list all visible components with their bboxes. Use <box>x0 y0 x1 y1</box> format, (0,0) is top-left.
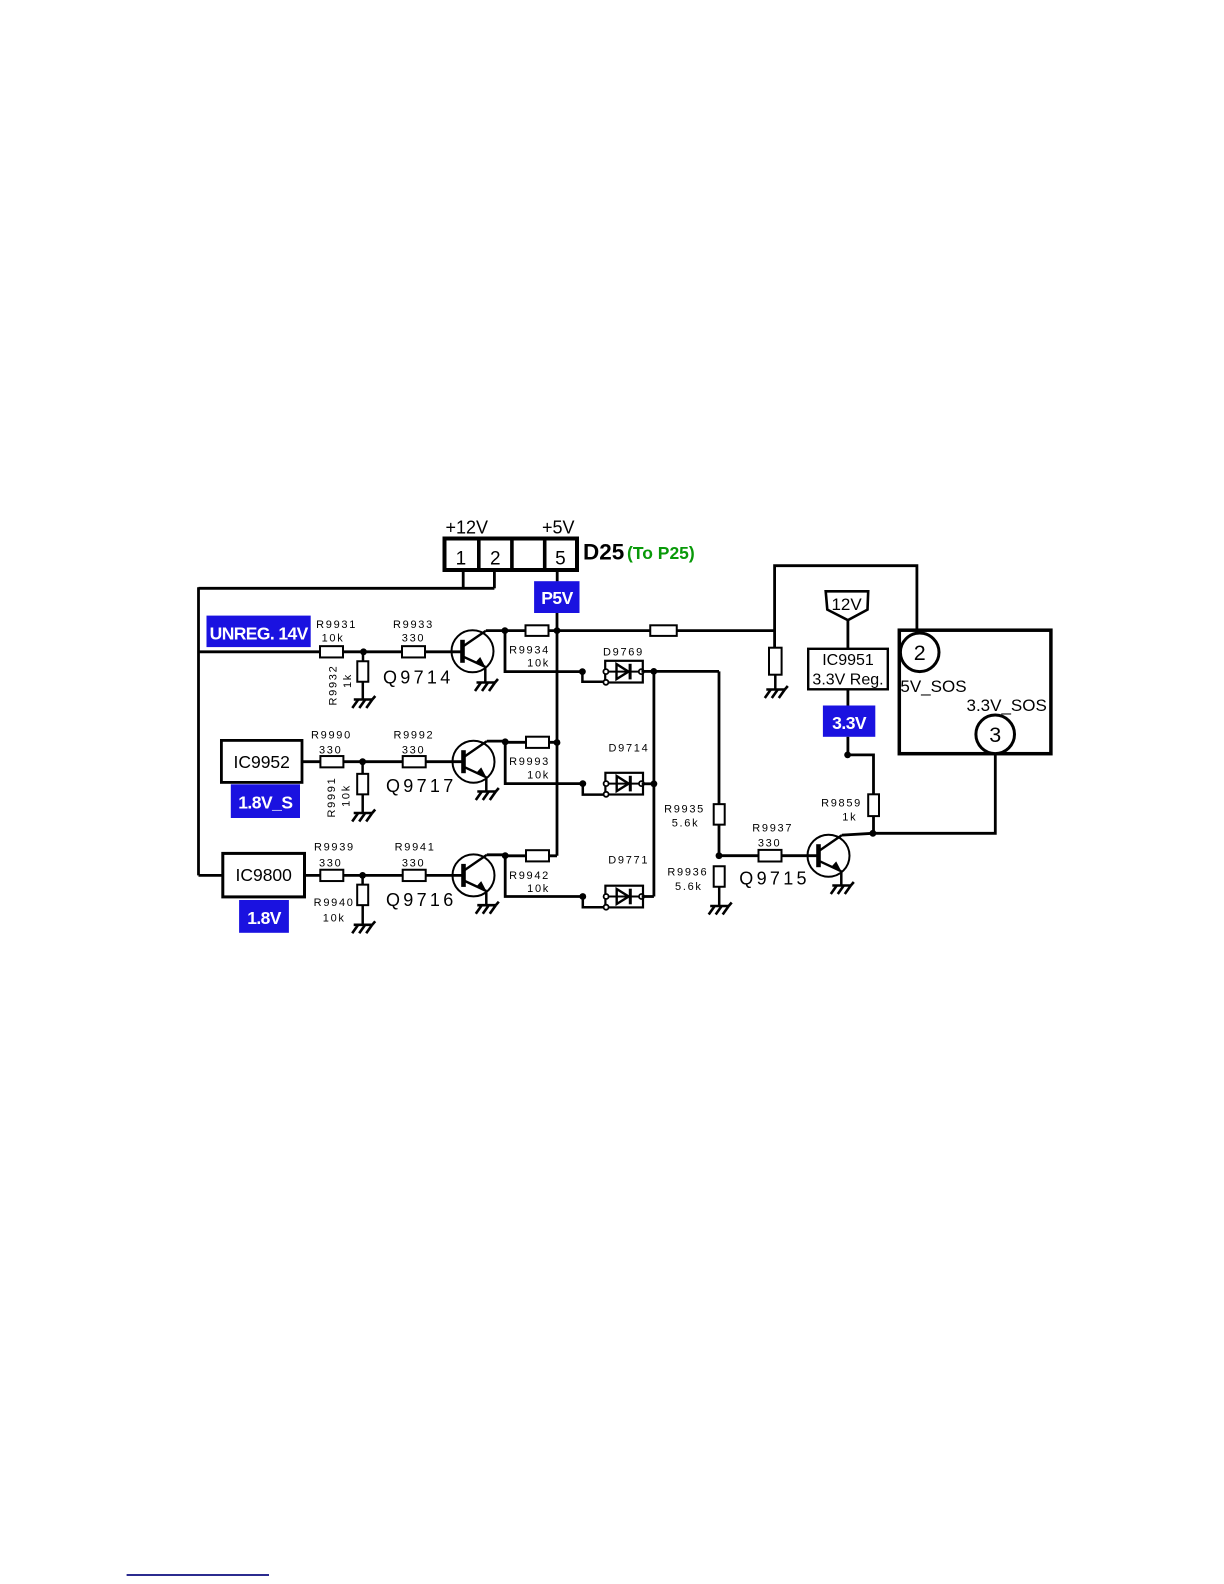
ground Q9717 emitter <box>476 777 499 800</box>
svg-text:2: 2 <box>490 549 501 570</box>
wire left bus to IC9800 <box>199 874 225 877</box>
node UNREG. 14V <box>207 616 311 648</box>
node collector junction Q9714 <box>502 627 509 634</box>
svg-text:P5V: P5V <box>541 588 573 608</box>
wire junction down to R9991 <box>361 762 364 774</box>
node R9859 Q9715 collector junction <box>870 830 877 837</box>
svg-text:IC9951: IC9951 <box>822 652 874 669</box>
wire D9771 cathode to bus <box>642 895 654 898</box>
resistor R9992 <box>393 729 434 767</box>
ground Q9715 emitter <box>831 871 854 894</box>
resistor R9933 <box>393 619 434 657</box>
wire 12V flag to IC9951 <box>847 620 850 649</box>
footer underline <box>127 1574 269 1576</box>
supply flag 12V <box>826 591 869 620</box>
wire UNREG 14V to R9931 <box>199 650 321 653</box>
wire D9769 anode loop <box>582 672 605 682</box>
ground below R9991 <box>352 794 375 821</box>
wire junction to R9937 <box>719 854 759 857</box>
wire left bus vertical <box>197 587 200 875</box>
svg-text:330: 330 <box>402 858 425 870</box>
node 1.8V_S <box>231 784 300 818</box>
wire P5V vertical <box>556 613 559 856</box>
node collector junction Q9717 <box>502 738 509 745</box>
ground Q9714 emitter <box>475 667 498 692</box>
svg-text:3: 3 <box>989 723 1001 747</box>
svg-text:D9771: D9771 <box>608 855 649 867</box>
wire resistor 775 top <box>773 631 776 648</box>
pin circle 2 <box>900 633 939 672</box>
svg-text:R9934: R9934 <box>509 645 550 657</box>
ground below R9936 <box>709 887 732 915</box>
svg-text:3.3V_SOS: 3.3V_SOS <box>967 696 1047 715</box>
resistor R9935 <box>664 804 725 830</box>
svg-text:R9942: R9942 <box>509 870 550 882</box>
svg-text:3.3V: 3.3V <box>832 713 867 733</box>
wire R9939 to junction <box>343 874 403 877</box>
wire junction down to R9932 <box>362 652 365 661</box>
wire Q9717 collector drop to D9714 <box>505 742 583 784</box>
svg-text:1: 1 <box>456 549 467 570</box>
svg-text:R9990: R9990 <box>311 729 352 741</box>
svg-text:12V: 12V <box>831 595 862 614</box>
transistor Q9717 <box>386 741 495 796</box>
svg-text:(To P25): (To P25) <box>627 543 695 563</box>
wire 3.3V down to junction <box>847 737 850 755</box>
svg-text:5V_SOS: 5V_SOS <box>900 677 966 696</box>
svg-text:5.6k: 5.6k <box>675 881 703 893</box>
resistor R9942 <box>509 850 550 895</box>
node collector junction Q9716 <box>502 852 509 859</box>
wire R9992 to Q9717 base <box>426 760 464 763</box>
connector D25 labels +12V +5V <box>446 518 575 538</box>
svg-text:330: 330 <box>319 858 342 870</box>
svg-text:2: 2 <box>914 641 926 665</box>
svg-text:+12V: +12V <box>446 518 489 538</box>
wire Q9715 collector to R9859 node <box>842 833 873 835</box>
wire D9769 cathode to node <box>642 670 654 673</box>
node diode bus mid <box>651 780 658 787</box>
svg-text:R9941: R9941 <box>395 842 436 854</box>
svg-text:R9932: R9932 <box>328 665 340 706</box>
wire R9937 to Q9715 base <box>781 854 818 857</box>
wire pin1 stub <box>462 570 465 588</box>
wire branch down to R9935 <box>718 671 721 804</box>
resistor R9934 <box>509 625 550 669</box>
wire R9935 to junction <box>718 825 721 856</box>
block IC9951 3.3V Reg. <box>808 649 888 690</box>
resistor R9941 <box>395 842 436 882</box>
wire IC9800 to R9939 <box>303 874 320 877</box>
node rail2 P5V junction <box>554 739 561 746</box>
wire D9771 anode loop <box>583 897 605 908</box>
svg-text:330: 330 <box>758 838 781 850</box>
node base junction Q9716 <box>359 872 366 879</box>
diode D9769 <box>603 647 644 685</box>
transistor Q9716 <box>386 854 495 909</box>
svg-text:10k: 10k <box>527 769 550 781</box>
wire rail2 <box>505 741 557 744</box>
svg-text:R9936: R9936 <box>667 867 708 879</box>
wire R9941 to Q9716 base <box>426 874 464 877</box>
transistor Q9714 <box>383 630 494 687</box>
wire D9714 anode loop <box>583 784 605 795</box>
node base junction Q9717 <box>359 758 366 765</box>
svg-text:5.6k: 5.6k <box>672 818 700 830</box>
svg-text:10k: 10k <box>341 784 353 807</box>
transistor Q9715 <box>739 835 849 889</box>
wire R9933 to Q9714 base <box>425 650 463 653</box>
svg-text:R9992: R9992 <box>393 729 434 741</box>
wire Q9716 collector to rail <box>487 853 505 856</box>
wire IC9952 to R9990 <box>301 760 320 763</box>
svg-text:IC9952: IC9952 <box>233 752 289 772</box>
svg-text:330: 330 <box>319 744 342 756</box>
svg-text:R9859: R9859 <box>821 798 862 810</box>
wire pins 1-2 to left bus <box>199 587 495 590</box>
svg-text:R9939: R9939 <box>314 842 355 854</box>
svg-text:R9931: R9931 <box>316 619 357 631</box>
wire collector node to SOS pin 3 <box>873 753 995 833</box>
resistor R9859 <box>821 794 879 823</box>
svg-text:R9935: R9935 <box>664 804 705 816</box>
node 3.3V <box>823 706 875 737</box>
svg-text:330: 330 <box>402 744 425 756</box>
wire pin2 stub <box>493 570 496 588</box>
wire rail3 <box>505 854 557 857</box>
svg-text:Q9715: Q9715 <box>739 869 810 889</box>
svg-text:10k: 10k <box>527 883 550 895</box>
resistor pull-down at 775 <box>769 648 782 675</box>
svg-text:5: 5 <box>555 549 566 570</box>
svg-text:10k: 10k <box>527 658 550 670</box>
node D9771 anode junction <box>579 893 586 900</box>
svg-text:D9714: D9714 <box>609 743 650 755</box>
svg-text:Q9717: Q9717 <box>386 776 457 796</box>
node R9935 R9936 junction <box>716 852 723 859</box>
resistor R9940 <box>314 885 369 925</box>
wire R9859 to collector node <box>872 816 875 833</box>
wire Q9716 collector drop to D9771 <box>505 856 583 897</box>
wire R9931 to junction <box>343 650 402 653</box>
node rail1 P5V junction <box>554 627 561 634</box>
node P5V <box>534 581 579 613</box>
connector D25 body <box>445 539 578 571</box>
node D9769 anode junction <box>579 668 586 675</box>
ground below R9932 <box>352 682 375 708</box>
svg-text:Q9714: Q9714 <box>383 668 454 688</box>
ground Q9716 emitter <box>476 891 499 914</box>
svg-text:IC9800: IC9800 <box>235 865 292 885</box>
resistor R9937 <box>752 823 793 862</box>
wire top loop to SOS box <box>775 566 917 634</box>
ground below R9940 <box>352 905 375 934</box>
resistor R9936 <box>667 866 724 893</box>
node diode bus top <box>650 668 657 675</box>
diode D9714 <box>604 743 650 797</box>
node base junction Q9714 <box>360 648 367 655</box>
resistor rail1 unlabeled <box>650 625 677 636</box>
svg-text:R9937: R9937 <box>752 823 793 835</box>
wire diode bus vertical <box>653 671 656 896</box>
svg-text:3.3V Reg.: 3.3V Reg. <box>812 672 883 689</box>
wire pin5 stub <box>556 570 559 581</box>
wire Q9714 collector to rail <box>486 629 505 632</box>
block IC9952 <box>221 740 302 782</box>
wire rail1 <box>505 629 775 632</box>
resistor R9939 <box>314 842 355 882</box>
svg-text:D25: D25 <box>583 540 624 565</box>
node D9714 anode junction <box>579 780 586 787</box>
wire Q9714 collector drop to D9769 <box>505 631 582 672</box>
svg-text:Q9716: Q9716 <box>386 890 457 910</box>
svg-text:D9769: D9769 <box>603 647 644 659</box>
resistor R9932 <box>328 661 369 705</box>
wire D9714 cathode to bus <box>642 782 654 785</box>
block IC9800 <box>223 853 305 897</box>
svg-text:R9993: R9993 <box>509 756 550 768</box>
svg-text:R9991: R9991 <box>326 777 338 818</box>
resistor R9931 <box>316 619 357 657</box>
node 1.8V <box>239 900 289 933</box>
node 3.3V R9859 junction <box>844 752 851 759</box>
svg-text:1.8V: 1.8V <box>247 908 282 928</box>
resistor R9990 <box>311 729 352 767</box>
wire diode node to R9935 branch <box>654 670 719 673</box>
svg-text:330: 330 <box>402 633 425 645</box>
svg-text:R9933: R9933 <box>393 619 434 631</box>
wire Q9717 collector to rail <box>487 740 505 743</box>
wire R9990 to junction <box>344 760 404 763</box>
pin circle 3 <box>976 715 1015 754</box>
svg-text:1k: 1k <box>842 812 857 824</box>
diode D9771 <box>604 855 650 910</box>
wire junction to R9859 <box>848 755 874 794</box>
svg-text:10k: 10k <box>322 633 345 645</box>
svg-text:1.8V_S: 1.8V_S <box>238 792 292 812</box>
wire IC9951 to 3.3V <box>847 689 850 705</box>
svg-text:10k: 10k <box>323 913 346 925</box>
svg-text:UNREG. 14V: UNREG. 14V <box>210 623 309 643</box>
resistor R9991 <box>326 774 368 818</box>
ground below resistor 775 <box>765 675 788 698</box>
svg-text:R9940: R9940 <box>314 897 355 909</box>
wire junction down to R9940 <box>361 875 364 885</box>
block SOS connector <box>899 630 1051 754</box>
svg-text:1k: 1k <box>342 673 354 688</box>
svg-text:+5V: +5V <box>542 518 575 538</box>
resistor R9993 <box>509 737 550 782</box>
